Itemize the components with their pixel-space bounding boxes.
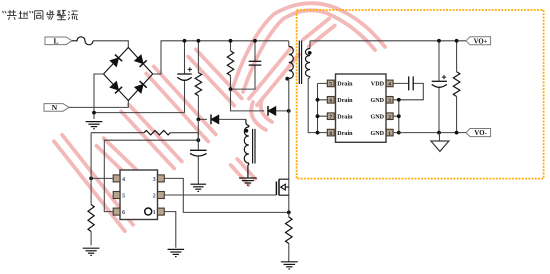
aux winding core bars [253,129,255,164]
pin 1 (right) [158,208,165,215]
diode D2 clamp [268,106,276,116]
capacitor C2 snubber [231,41,256,89]
junction drain pins [316,98,320,102]
bridge diode top-right [134,55,146,67]
wire snubber to clamp diode [231,89,289,111]
svg-text:VDD: VDD [371,82,385,88]
ground G4 VCC cap [191,184,207,191]
circle mark inside U1 [145,208,152,215]
capacitor C3 VDD decoupling [393,83,423,99]
bridge diode top-left [110,55,122,67]
junction GND pins [397,98,401,102]
resistor R4 lower divider (vertical) [90,133,92,246]
junction snubber R top [229,39,233,43]
svg-text:6: 6 [122,209,125,216]
transformer T1 secondary winding [309,41,311,49]
junctions output bus [437,39,441,43]
junction snubber C top [253,39,257,43]
wire secondary positive bus [310,40,466,42]
wire pin2 to MOSFET gate [164,194,276,196]
svg-text:5: 5 [329,82,332,88]
transformer T1 primary winding [288,41,290,47]
junction pin4 node [89,177,93,181]
svg-text:6: 6 [329,98,332,104]
electrolytic bulk capacitor C1 [184,41,186,113]
wire secondary bottom to drain bus [308,77,317,133]
bridge diode bottom-left [110,81,122,93]
port flag L [45,37,72,46]
op-amp U2 synchronous rectifier IC body [336,74,387,142]
ground triangle secondary [439,133,441,141]
junction rail/ground [92,111,96,115]
pin 5 (left) [113,192,120,199]
pin 2 (right) [158,192,165,199]
aux winding L1 [246,119,249,127]
svg-text:Drain: Drain [337,131,353,137]
transistor Q1 MOSFET [276,179,279,195]
pin 6 (left) [113,208,120,215]
svg-text:Drain: Drain [337,98,353,104]
bridge rectifier BD1 diamond [104,48,153,101]
primary phase dot [285,77,289,81]
svg-text:L: L [53,37,58,46]
svg-text:VO-: VO- [474,130,487,137]
svg-text:1: 1 [153,209,156,216]
svg-text:8: 8 [329,131,332,137]
resistor R6 source sense [288,212,290,261]
fuse F1 [72,37,93,45]
svg-text:Drain: Drain [337,82,353,88]
resistor R1 startup (vertical) [197,41,199,120]
ground primary G1 [86,113,103,129]
pin 8 Drain [327,129,334,136]
op-amp U1 primary controller IC body [120,170,158,220]
pin 6 Drain [327,97,334,104]
pin 4 (left) [113,175,120,182]
resistor R3 dummy load [456,41,458,133]
pin 7 Drain [327,113,334,120]
wire drain pin bus [318,83,328,132]
pin 5 Drain [327,80,334,87]
resistor R2 snubber [230,41,232,89]
wire bridge right corner to top bus [153,41,289,74]
junction bulk cap top [183,39,187,43]
title text "共地"同步整流 [3,10,78,20]
wire pin3 to MOSFET source node [164,178,288,212]
watermark UNI-S diagonal pink strokes [54,3,385,231]
dashed highlight box (secondary SR section) [297,10,544,179]
svg-text:N: N [52,103,58,112]
svg-text:2: 2 [153,192,156,199]
svg-text:GND: GND [370,131,384,137]
pin 2 GND [386,113,393,120]
svg-text:Drain: Drain [337,115,353,121]
wire VCC feed to pin6 [104,140,198,211]
svg-text:2: 2 [388,114,391,120]
ground G3 divider [83,248,100,255]
wire primary bottom / MOSFET drain riser [288,79,290,213]
pin 3 GND [386,97,393,104]
ground G2 aux winding [239,178,257,185]
junction snubber RC bottom [229,87,233,91]
transformer T1 core [299,41,301,85]
wire output ground bus [399,132,466,134]
svg-text:3: 3 [153,176,156,183]
wire pin4 to divider [91,177,113,179]
junction startup resistor top [197,39,201,43]
svg-text:4: 4 [122,176,125,183]
diode D1 aux rectifier [198,118,246,120]
aux winding phase dot [245,129,249,133]
port flag VO- [466,129,491,138]
junction MOSFET source node [287,211,291,215]
svg-text:3: 3 [388,98,391,104]
svg-text:4: 4 [388,82,391,88]
ground G6 source sense [281,262,298,269]
ground G5 pin1 [168,249,185,256]
wire L to bridge top [93,41,128,48]
svg-text:GND: GND [370,98,384,104]
resistor R5 upper divider (horizontal) [91,133,198,141]
svg-text:1: 1 [388,131,391,137]
wire pin1 to ground [164,212,176,248]
port flag VO+ [466,37,491,46]
junction D1 cathode / vcc chain [197,118,201,122]
junction clamp diode / primary bottom [287,109,291,113]
svg-text:GND: GND [370,115,384,121]
port flag N [44,103,69,112]
junction VCC node [196,138,200,142]
pin 1 GND [386,129,393,136]
electrolytic output capacitor C4 [438,41,440,133]
wire negative rail to bulk cap [94,112,185,114]
pin 4 VDD [386,80,393,87]
svg-text:VO+: VO+ [474,38,488,45]
electrolytic capacitor C5 VCC [190,150,207,156]
bridge diode bottom-right [134,81,146,93]
svg-text:7: 7 [329,114,332,120]
wire bridge left corner to ground rail [94,74,104,113]
wire GND pin bus [393,100,399,133]
secondary phase dot [308,51,312,55]
pin 3 (right) [158,175,165,182]
wire N to bridge bottom [69,101,128,108]
svg-text:5: 5 [122,192,125,199]
wire vcc chain vertical [197,119,199,183]
